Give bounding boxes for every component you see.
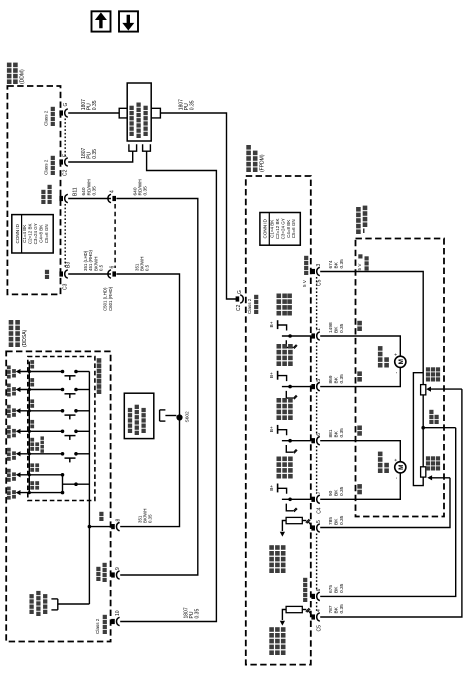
svg-text:0.35: 0.35 — [148, 514, 153, 523]
svg-text:0.35: 0.35 — [92, 149, 98, 159]
svg-text:1498: 1498 — [328, 322, 334, 333]
connector pin 10 serial — [111, 619, 115, 624]
wire B3 to splice6 — [68, 273, 111, 275]
connector FPDM pin 4 C5 vertical sensor — [311, 614, 315, 619]
connector FPDM pin 5 motor-down — [311, 384, 315, 389]
svg-text:C5=6 GN: C5=6 GN — [291, 219, 296, 238]
connector pin 8 ground — [111, 524, 115, 529]
connector FPDM pin 5b horizontal sensor — [311, 525, 315, 530]
label vertical motor — [378, 363, 383, 368]
svg-text:C601 (RHD): C601 (RHD) — [108, 286, 113, 311]
module mirror box — [356, 239, 445, 517]
svg-text:640: 640 — [81, 187, 87, 195]
module FPDM box — [246, 176, 311, 665]
svg-text:C3: C3 — [63, 283, 69, 290]
label battery voltage row 2 — [7, 393, 11, 397]
svg-text:3: 3 — [316, 264, 322, 267]
svg-text:+: + — [394, 353, 400, 356]
svg-text:90: 90 — [328, 490, 334, 496]
ground bus vertical — [88, 372, 90, 605]
switch feed bus vertical — [28, 362, 30, 493]
label power-window reference — [29, 610, 33, 614]
wire wiper1 to pin4 — [320, 389, 462, 617]
svg-text:0.35: 0.35 — [143, 186, 149, 196]
label mirror motor down control — [277, 361, 282, 366]
switch row 5 — [16, 451, 21, 456]
label mirror title — [356, 229, 361, 234]
svg-text:0.35: 0.35 — [339, 486, 345, 496]
svg-text:(DDM): (DDM) — [20, 69, 26, 84]
wire DLC right to FPDM serial — [160, 113, 237, 299]
wire ground bus to pin8 — [89, 526, 111, 528]
svg-text:G: G — [237, 290, 243, 294]
label DDM title — [7, 79, 12, 84]
label fold row — [30, 447, 34, 451]
svg-text:0.5: 0.5 — [145, 264, 150, 271]
label low reference — [303, 598, 307, 602]
label mirror motor right control — [277, 415, 282, 420]
label ground B3 — [45, 275, 49, 279]
wire 1498 up into mirror — [320, 336, 400, 356]
connector FPDM pin 3 C5 — [311, 269, 315, 274]
svg-text:0.35: 0.35 — [194, 609, 200, 619]
branch 5V to poti2 bottom — [413, 373, 423, 486]
label direction row 4 — [30, 425, 34, 429]
svg-text:B3: B3 — [66, 262, 72, 268]
splice S602 — [176, 414, 182, 420]
svg-text:C4: C4 — [317, 507, 323, 514]
svg-text:CONN ID: CONN ID — [15, 223, 20, 243]
svg-text:881: 881 — [328, 429, 334, 437]
splice 4 — [108, 194, 111, 202]
dotted connector links FPDM — [316, 277, 318, 331]
svg-text:0.35: 0.35 — [339, 374, 345, 384]
label horizontal position sensor signal — [269, 568, 274, 573]
label mirror motor left control — [277, 474, 282, 479]
connector FPDM pin 6b low reference — [311, 594, 315, 599]
svg-text:C1=4 BK: C1=4 BK — [270, 220, 275, 238]
svg-text:C2: C2 — [63, 169, 69, 176]
svg-text:6: 6 — [110, 266, 116, 269]
svg-text:0.35: 0.35 — [339, 323, 345, 333]
bracket power-window note — [57, 599, 59, 610]
wire B11 to splice4 — [68, 198, 111, 200]
svg-text:9: 9 — [115, 567, 121, 570]
svg-text:0.35: 0.35 — [92, 100, 98, 110]
label vertical position sensor signal — [269, 650, 274, 655]
label horizontal motor — [378, 468, 383, 473]
svg-text:S602: S602 — [185, 411, 191, 423]
button scroll-down — [119, 11, 138, 31]
dotted connector link B11-B3 — [64, 204, 66, 268]
svg-text:+: + — [394, 459, 400, 462]
label battery voltage row 1 — [7, 375, 11, 379]
wire splice6 to S602 and pin8 — [116, 274, 179, 527]
svg-text:-: - — [394, 372, 400, 374]
sense resistor — [286, 517, 302, 523]
conn-id table FPDM — [260, 213, 300, 246]
switch row 6 select right — [16, 472, 21, 477]
reference box door-control-module — [124, 393, 154, 438]
switch row 4 — [16, 429, 21, 434]
svg-text:BK: BK — [333, 518, 339, 525]
connector FPDM pin 6 motor-right — [311, 438, 315, 443]
svg-text:C501 (LHD): C501 (LHD) — [102, 287, 107, 311]
bracket door-control-module — [159, 410, 161, 421]
svg-text:869: 869 — [328, 375, 334, 383]
label battery voltage row 4 — [7, 435, 11, 439]
connector FPDM pin 7 C4 motor-left — [311, 497, 315, 502]
branch low-ref out — [421, 426, 425, 430]
svg-text:B+: B+ — [269, 485, 275, 491]
sense resistor — [286, 606, 302, 612]
label DDSA title — [9, 342, 14, 347]
svg-text:Class 2: Class 2 — [247, 298, 252, 314]
label direction row 3 — [30, 404, 34, 408]
label battery voltage row 5 — [7, 457, 11, 461]
svg-text:10: 10 — [115, 610, 121, 616]
wire ground bus to power-window note — [58, 603, 90, 605]
connector pin G — [59, 110, 63, 115]
wire 869 down into mirror — [320, 367, 400, 386]
conn-id table DDM — [12, 215, 53, 253]
svg-text:BK: BK — [333, 489, 339, 496]
svg-text:4: 4 — [110, 190, 116, 193]
switch row 7 select left — [16, 490, 21, 495]
svg-text:0.35: 0.35 — [92, 186, 98, 196]
bracket bottom-left of DLC box — [129, 144, 137, 151]
poti vertical sensor — [422, 385, 424, 467]
wire F to DLC bottom-left bracket — [68, 151, 133, 162]
svg-text:C5=6 GN: C5=6 GN — [44, 224, 49, 243]
label battery positive voltage B11 — [41, 200, 45, 204]
svg-text:C5: C5 — [317, 279, 323, 286]
connector FPDM pin 1 — [311, 333, 315, 338]
label direction row 1 — [30, 365, 34, 369]
svg-text:B+: B+ — [269, 372, 275, 378]
connector FPDM pin G C2 — [236, 296, 240, 301]
svg-text:0.35: 0.35 — [189, 100, 195, 110]
switch row 1 — [16, 369, 21, 374]
wire 90 left into mirror — [320, 473, 400, 499]
dotted connector link G-F — [64, 119, 66, 158]
mirror switch inner box — [28, 357, 95, 501]
svg-text:5 V: 5 V — [357, 263, 362, 271]
svg-text:BK: BK — [333, 430, 339, 437]
svg-text:675: 675 — [328, 585, 334, 593]
label mirror motor up control — [277, 311, 282, 316]
label horizontal position sensor — [426, 466, 430, 470]
svg-text:RD/WH: RD/WH — [138, 179, 144, 196]
svg-text:0.35: 0.35 — [339, 515, 345, 525]
svg-text:0.35: 0.35 — [339, 259, 345, 269]
connector pin B3 C3 — [59, 271, 63, 276]
switch row 2 — [16, 387, 21, 392]
svg-text:C2=12 BK: C2=12 BK — [28, 223, 33, 244]
svg-text:Class 2: Class 2 — [44, 159, 49, 175]
button scroll-up — [92, 11, 111, 31]
svg-text:C4=8 BK: C4=8 BK — [39, 225, 44, 243]
svg-text:BK: BK — [333, 326, 339, 333]
svg-text:M: M — [398, 465, 405, 470]
module DDSA box — [6, 351, 110, 641]
motor M2 horizontal — [395, 462, 406, 473]
label direction row 2 — [30, 383, 34, 387]
bracket left of DLC box — [119, 108, 127, 118]
wire bracket to S602 — [165, 415, 176, 417]
svg-text:BK: BK — [333, 376, 339, 383]
wiper horizontal sensor — [427, 475, 432, 480]
svg-text:CONN ID: CONN ID — [262, 218, 267, 238]
wire 674 5V into mirror — [320, 272, 423, 385]
svg-text:C3=24 GY: C3=24 GY — [280, 218, 285, 239]
svg-text:M: M — [398, 359, 405, 364]
wire 881 right into mirror — [320, 441, 400, 462]
module DDM box — [7, 86, 60, 294]
svg-text:C5: C5 — [317, 625, 323, 632]
bracket bottom-right of DLC box — [143, 144, 151, 151]
switch row select arm — [63, 483, 90, 485]
connector pin 9 battery — [111, 572, 115, 577]
reference box data-link-connector — [127, 83, 151, 141]
svg-text:BK: BK — [333, 606, 339, 613]
svg-text:674: 674 — [328, 260, 334, 268]
switch row 3 — [16, 408, 21, 413]
label low reference mirror — [429, 420, 433, 424]
svg-text:(FPDM): (FPDM) — [259, 154, 265, 172]
svg-text:B11: B11 — [73, 187, 79, 196]
select common vertical — [62, 475, 64, 493]
wire DLC bottom-right bracket to pin10 — [120, 151, 216, 621]
svg-text:(DDSA): (DDSA) — [22, 329, 28, 347]
svg-text:787: 787 — [328, 605, 334, 613]
svg-text:C2=12 BK: C2=12 BK — [275, 218, 280, 239]
dashed link splice4-splice6 C501 — [114, 204, 116, 268]
label vertical position sensor — [426, 377, 430, 381]
svg-text:BK: BK — [333, 586, 339, 593]
svg-text:C2: C2 — [236, 304, 242, 311]
svg-text:8: 8 — [116, 519, 122, 522]
label battery voltage row 3 — [7, 414, 11, 418]
label mirror-switch — [97, 389, 102, 394]
wire G to DLC — [68, 112, 119, 114]
svg-text:B+: B+ — [269, 426, 275, 432]
svg-text:Class 2: Class 2 — [95, 618, 100, 634]
svg-text:0.35: 0.35 — [339, 583, 345, 593]
svg-text:5: 5 — [316, 520, 322, 523]
svg-text:Class 2: Class 2 — [44, 110, 49, 126]
svg-text:C3=24 GY: C3=24 GY — [33, 223, 38, 244]
connector pin F C2 — [59, 159, 63, 164]
svg-text:RD/WH: RD/WH — [86, 179, 92, 196]
wire low-ref to pin6b — [320, 428, 456, 597]
svg-text:640: 640 — [132, 187, 138, 195]
svg-text:-: - — [394, 477, 400, 479]
connector pin B11 — [59, 196, 63, 201]
motor M1 vertical — [395, 356, 406, 367]
bracket right of DLC box — [151, 108, 160, 118]
wire splice4 to pin9 vertical — [116, 199, 197, 576]
wiper vertical sensor — [426, 387, 431, 392]
svg-text:785: 785 — [328, 517, 334, 525]
wire wiper2 to pin5b — [320, 478, 450, 528]
svg-text:0.5: 0.5 — [99, 264, 104, 271]
svg-text:B+: B+ — [269, 321, 275, 327]
svg-text:BK: BK — [333, 261, 339, 268]
svg-text:5 V: 5 V — [302, 279, 307, 287]
svg-text:0.35: 0.35 — [339, 604, 345, 614]
svg-text:C4=8 BK: C4=8 BK — [286, 220, 291, 238]
svg-text:C1=4 BK: C1=4 BK — [22, 225, 27, 243]
svg-text:G: G — [63, 103, 69, 107]
label FPDM title — [246, 167, 251, 172]
splice 6 — [108, 270, 111, 278]
poti horizontal sensor — [421, 467, 426, 477]
svg-text:0.35: 0.35 — [339, 428, 345, 438]
